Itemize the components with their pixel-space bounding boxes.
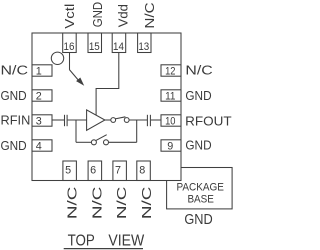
pin 7 pad — [113, 161, 127, 181]
svg-text:N/C: N/C — [89, 187, 104, 220]
svg-text:GND: GND — [1, 138, 27, 153]
svg-text:15: 15 — [89, 41, 100, 53]
pin 6 pad — [88, 161, 102, 181]
svg-text:16: 16 — [64, 41, 75, 53]
svg-text:GND: GND — [1, 88, 27, 103]
svg-text:14: 14 — [113, 41, 124, 53]
package base box — [167, 168, 233, 209]
switch S2 contact b — [104, 140, 109, 145]
svg-text:8: 8 — [139, 165, 145, 177]
svg-text:Vctl: Vctl — [62, 4, 77, 29]
capacitor C2 — [147, 115, 150, 126]
switch S2 contact a — [91, 140, 96, 145]
svg-text:N/C: N/C — [185, 62, 212, 77]
svg-text:PACKAGE: PACKAGE — [176, 181, 224, 193]
svg-text:4: 4 — [36, 141, 42, 153]
package outline — [32, 33, 181, 181]
label TOP VIEW — [68, 233, 145, 250]
pin 16 pad — [63, 33, 76, 53]
pin 4 pad — [32, 140, 52, 151]
switch S1 arm — [115, 117, 125, 119]
wire S1 to node A — [129, 119, 147, 121]
switch S1 contact b — [124, 118, 129, 123]
svg-text:GND: GND — [185, 88, 211, 103]
Vctl control arrowhead — [76, 78, 84, 86]
pin 10 pad — [161, 115, 181, 126]
svg-text:GND: GND — [90, 2, 105, 28]
wire node A down to bypass — [136, 120, 138, 142]
svg-text:RFIN: RFIN — [1, 112, 31, 127]
wire bypass row left — [76, 141, 91, 143]
pin 5 pad — [63, 161, 77, 181]
svg-text:N/C: N/C — [139, 187, 154, 220]
wire bypass tap down — [75, 120, 77, 142]
svg-text:TOP: TOP — [68, 233, 95, 250]
wire Vctl pin16 down — [69, 53, 71, 70]
wire bypass row right — [109, 141, 137, 143]
wire Vdd pin14 to amplifier — [96, 53, 119, 116]
pin 1 pad — [32, 65, 52, 76]
svg-text:GND: GND — [185, 138, 211, 153]
svg-text:N/C: N/C — [114, 187, 129, 220]
svg-text:11: 11 — [165, 91, 175, 103]
svg-text:6: 6 — [90, 165, 96, 177]
Vctl control arrow line — [69, 70, 79, 82]
pin 3 pad — [32, 115, 52, 126]
svg-text:2: 2 — [36, 91, 42, 103]
wire C2 to RFOUT pin10 — [151, 119, 161, 121]
switch S2 arm — [96, 135, 107, 141]
capacitor C1 — [65, 115, 68, 126]
svg-text:10: 10 — [165, 116, 175, 128]
pin 15 pad — [88, 33, 102, 53]
pin 1 indicator circle — [51, 52, 63, 64]
wire C1 to amplifier input — [68, 119, 87, 121]
pin 8 pad — [137, 161, 151, 181]
pin 11 pad — [161, 90, 181, 101]
switch S1 contact a — [111, 118, 116, 123]
svg-text:VIEW: VIEW — [108, 233, 144, 250]
svg-text:1: 1 — [36, 66, 42, 78]
wire RFIN pin3 to C1 — [52, 119, 64, 121]
svg-text:12: 12 — [165, 66, 175, 78]
amplifier U1 — [87, 110, 105, 130]
svg-text:N/C: N/C — [65, 187, 80, 220]
pin 14 pad — [112, 33, 126, 53]
svg-text:3: 3 — [36, 116, 42, 128]
svg-text:Vdd: Vdd — [115, 4, 130, 27]
TOP VIEW underline — [64, 248, 143, 250]
pin 2 pad — [32, 90, 52, 101]
svg-text:RFOUT: RFOUT — [185, 113, 232, 128]
svg-text:7: 7 — [115, 165, 121, 177]
svg-text:BASE: BASE — [187, 194, 214, 206]
svg-text:9: 9 — [167, 141, 173, 153]
pin 12 pad — [161, 65, 181, 76]
svg-text:N/C: N/C — [142, 2, 157, 28]
svg-text:N/C: N/C — [1, 63, 29, 78]
pin 13 pad — [138, 33, 151, 53]
wire amplifier output to switch S1 — [105, 119, 111, 121]
svg-text:13: 13 — [138, 41, 149, 53]
pin 9 pad — [161, 140, 181, 151]
svg-text:5: 5 — [65, 165, 71, 177]
svg-text:GND: GND — [184, 211, 212, 228]
